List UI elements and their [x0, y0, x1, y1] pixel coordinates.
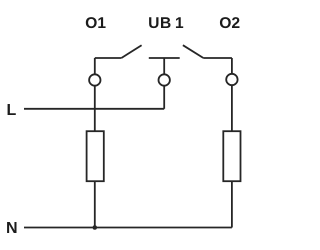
wire O1 branch vertical [94, 58, 96, 228]
wire O1 horizontal [95, 57, 122, 59]
load resistor left (O1 load) [87, 131, 104, 181]
label UB1 [149, 17, 183, 28]
wire UB1 vertical [163, 58, 165, 109]
label O1 [86, 17, 106, 28]
junction dot on N bus [93, 225, 98, 230]
wire O2 branch vertical [231, 58, 233, 228]
terminal circle O1 [89, 74, 100, 85]
switch blade K1 (O1 side) [122, 45, 142, 58]
switch blade K2 (O2 side) [183, 45, 203, 58]
wire O2 horizontal [203, 57, 232, 59]
terminal circle UB1 [159, 74, 170, 85]
terminal circle O2 [226, 74, 237, 85]
label O2 [220, 17, 240, 28]
net label L [8, 104, 16, 115]
wire L bus [24, 108, 164, 110]
net label N [7, 222, 16, 233]
load resistor right (O2 load) [223, 131, 240, 181]
wire N bus [24, 227, 232, 229]
switch common bar UB1 [149, 57, 180, 59]
